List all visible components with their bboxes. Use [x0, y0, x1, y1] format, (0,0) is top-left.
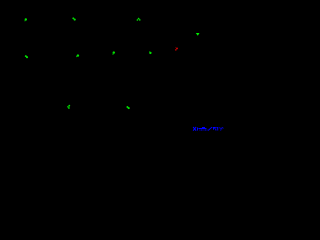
green glow E (center-right): [149, 51, 152, 54]
word1: [196, 127, 199, 130]
green glow G triangle (upper-right): [196, 33, 200, 36]
blue watermark signature (bottom-right): [193, 127, 223, 131]
X: [193, 127, 196, 131]
word2: [213, 127, 216, 128]
green glow D (center): [112, 51, 115, 54]
green glow A (top-left): [24, 18, 27, 21]
green glow I (mid-left-2): [76, 54, 79, 57]
green glow H (mid-left): [25, 55, 28, 58]
green glow B (top-middle-left): [72, 17, 75, 20]
green glow J (bottom-left): [67, 105, 70, 109]
red glow F (right): [175, 47, 178, 51]
green glow C caret (top-middle): [137, 18, 141, 21]
word3: [219, 127, 220, 128]
slash: [208, 127, 212, 130]
green glow K (bottom-middle): [126, 106, 129, 109]
